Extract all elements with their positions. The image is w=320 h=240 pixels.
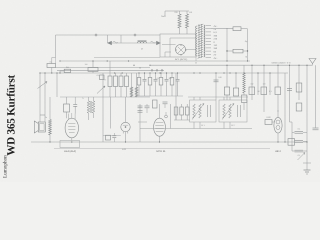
wire comb bottom: [136, 95, 183, 97]
capacitor C2: [73, 104, 77, 106]
tube V1 internals: [156, 122, 164, 124]
wire rail x54 upper: [55, 58, 57, 64]
capacitor C10: [214, 79, 219, 81]
tube V5 internals: [276, 120, 280, 124]
wire V1 leads: [159, 104, 161, 118]
ground GND1: [304, 169, 311, 171]
tube V1 top cap: [165, 115, 168, 118]
wire rail x45: [44, 73, 46, 115]
wire right rail x307: [306, 65, 308, 170]
wire rail x170: [170, 104, 172, 129]
resistor R19: [180, 107, 184, 115]
resistor R24: [106, 135, 111, 140]
wire R18 leads: [175, 115, 177, 120]
node HT junction: [226, 50, 227, 51]
wire IF link y97 right: [188, 96, 248, 98]
wire V2 leads: [125, 97, 127, 122]
resistor R21 voltage selector 110: [186, 14, 189, 28]
resistor R23: [185, 107, 189, 115]
tube V5 AB2 envelope: [274, 117, 282, 133]
wire L3 leads: [131, 73, 133, 87]
node top bus junction B: [134, 34, 135, 35]
capacitor C9: [163, 101, 168, 103]
wire L4 leads: [136, 73, 138, 87]
wire y122 stub: [138, 121, 147, 123]
tube V3 base: [60, 141, 80, 148]
transformer T1 core: [198, 24, 200, 58]
wire L6 top: [243, 65, 245, 73]
wire bus y65 wave-switch line: [150, 64, 313, 66]
resistor R22: [233, 49, 243, 53]
wire V3 bottom: [71, 138, 73, 141]
wire bus y73: [40, 72, 289, 74]
wire V3 top leads: [66, 112, 68, 118]
wire bottom bus: [31, 141, 307, 143]
wire R17 leads: [272, 121, 274, 123]
wire R2 link: [59, 71, 61, 73]
tube V3 internals: [68, 123, 75, 125]
capacitor C11: [224, 87, 229, 95]
wire x93 drop: [92, 61, 94, 68]
wire PSU bottom: [195, 57, 197, 61]
wire IF tops: [193, 97, 195, 100]
IF Fi2 arrow: [222, 104, 234, 120]
scan noise overlay: [0, 0, 1, 1]
node top bus junction A: [95, 34, 96, 35]
wire R16 down: [243, 93, 245, 95]
wire y120 link: [174, 119, 190, 121]
capacitor C21: [138, 105, 143, 107]
wire C11 down: [226, 95, 228, 100]
wire bus y61: [60, 60, 250, 62]
capacitor C8: [125, 76, 129, 87]
wire drop to R1: [51, 58, 53, 64]
wire fuse bottoms: [179, 28, 181, 34]
wire right rail x299: [298, 65, 300, 100]
wire bus y70: [57, 69, 164, 71]
resistor R20 voltage selector 220: [178, 14, 181, 28]
wire x258 drop: [257, 73, 259, 95]
resistor R16: [242, 95, 247, 103]
transformer T2 primary: [87, 101, 90, 113]
wire rectifier anode: [162, 44, 176, 46]
power box inner partition: [169, 38, 171, 57]
tube V3 AL4 envelope: [65, 118, 78, 138]
wire x292 lower: [291, 122, 293, 142]
wire right top cap: [315, 65, 317, 127]
capacitor C23: [145, 105, 150, 107]
resistor R15: [296, 103, 302, 111]
paper background: [0, 0, 320, 182]
wire y135 link: [103, 135, 121, 137]
IF Fi1 arrow: [192, 104, 204, 120]
wire x278 drop: [277, 65, 279, 87]
wire rail x110: [110, 97, 112, 129]
capacitor C17: [295, 140, 304, 142]
wire fuse tops: [175, 10, 189, 12]
wire HT line y57: [94, 57, 160, 59]
IF can Fi2 box: [219, 100, 247, 122]
inductor L2 field coil: [49, 120, 52, 136]
wire R1 down: [51, 68, 53, 74]
IF Fi2 coil b: [229, 104, 232, 118]
wire right rail x289: [289, 65, 291, 122]
transformer T1 primary winding: [196, 26, 197, 56]
wire rectifier cathode: [185, 49, 196, 51]
transformer T1 core hatch: [198, 24, 204, 26]
resistor R11: [249, 87, 255, 95]
wire x285 rail: [284, 73, 286, 142]
junction dots: [107, 60, 108, 61]
wire L2 bottom: [49, 135, 51, 142]
wire gnd tick: [303, 162, 311, 164]
wire C5 leads: [109, 61, 111, 76]
capacitor C18: [295, 149, 304, 151]
wire x264 drop: [263, 65, 265, 112]
wire HT vertical: [226, 28, 228, 61]
inductor L4: [135, 87, 137, 97]
inductor L3: [130, 87, 132, 97]
wire IF bottoms: [193, 122, 195, 129]
capacitor C20: [233, 27, 241, 31]
inductor L1 mains choke: [138, 42, 147, 44]
resistor R13: [275, 87, 281, 95]
resistor R4: [88, 68, 98, 72]
switch contacts: [151, 69, 153, 71]
wire y97 left: [60, 96, 150, 98]
wire R22 leads: [227, 50, 233, 52]
resistor-capacitor comb: [138, 73, 140, 78]
tube V2 internals: [125, 126, 127, 128]
resistor R25: [288, 139, 295, 146]
wire rail x176: [175, 73, 177, 120]
wire speaker top leads: [39, 115, 41, 122]
wire T2 leads: [88, 97, 90, 101]
arrow volume pot: [97, 86, 105, 94]
wire mains lead: [165, 10, 175, 12]
wire top bus: [56, 34, 161, 36]
transformer T2 secondary: [92, 101, 95, 113]
wire y128 link: [140, 128, 252, 130]
IF Fi1 coil a: [193, 104, 196, 118]
capacitor C19: [313, 127, 319, 129]
IF Fi1 coil b: [199, 104, 202, 118]
diode D1: [108, 41, 112, 44]
wire rail x57: [56, 73, 58, 97]
wire bus y67: [56, 67, 151, 69]
wire V5 leads: [277, 110, 279, 117]
resistor R14: [296, 83, 302, 92]
wire tap to C20: [211, 28, 233, 30]
resistor R12: [261, 87, 267, 95]
rectifier tube V4 AZ1: [176, 45, 187, 56]
inductor L6: [243, 73, 245, 93]
speaker LS1: [34, 121, 38, 133]
resistor R8: [153, 100, 158, 108]
arrow AVC: [298, 153, 306, 161]
wire C7 leads: [120, 73, 122, 76]
wire rail x40: [39, 73, 41, 115]
wire R5 lead: [66, 97, 68, 104]
wire x227 drop: [226, 65, 228, 87]
capacitor C16: [295, 131, 304, 133]
transformer T1 secondary winding: [204, 25, 205, 57]
transformer T1 secondary taps: [206, 25, 212, 27]
wire rectifier row: [108, 42, 161, 44]
resistor R5 grid box: [64, 104, 70, 112]
wire drop x107: [107, 35, 109, 43]
capacitor C15: [287, 88, 292, 90]
capacitor C24: [112, 135, 116, 137]
potentiometer arrow P1: [38, 82, 48, 89]
resistor R18: [174, 107, 178, 115]
tube V1 ECH11 envelope: [154, 118, 166, 136]
wire rail x140: [139, 104, 141, 142]
wire C6 leads: [115, 73, 117, 76]
capacitor C5: [108, 76, 112, 87]
capacitor C7: [119, 76, 123, 87]
wire left drop: [55, 35, 57, 58]
wire bottom bus 2: [54, 148, 270, 150]
wire x252 drop: [251, 65, 253, 100]
resistor R1: [47, 64, 56, 68]
IF Fi2 trimmer C13: [237, 105, 239, 117]
capacitor C22: [138, 109, 143, 111]
antenna A1: [309, 59, 316, 64]
small box B1: [100, 75, 105, 80]
wire C20 right: [241, 28, 248, 30]
resistor R9: [233, 88, 238, 96]
wire long rail x103: [102, 73, 104, 142]
node bottom junctions: [49, 141, 50, 142]
resistor R2: [64, 69, 70, 72]
diode D2: [157, 41, 161, 44]
transformer T2 core: [90, 101, 92, 113]
wire x236 drop: [235, 73, 237, 88]
power rectifier box: [160, 34, 196, 57]
wire x216 drop: [215, 73, 217, 100]
wire C8 leads: [126, 73, 128, 76]
wire x270 drop: [269, 73, 271, 95]
wire drop x121: [120, 35, 122, 43]
IF Fi1 trimmer C12: [207, 105, 209, 117]
wire heater loop: [165, 52, 171, 57]
tube V2 envelope: [121, 122, 130, 131]
capacitor C6: [114, 76, 118, 87]
wire L2 top: [49, 97, 51, 120]
IF Fi2 coil a: [223, 104, 226, 118]
resistor R17: [265, 120, 272, 125]
IF can Fi1 box: [190, 100, 217, 122]
